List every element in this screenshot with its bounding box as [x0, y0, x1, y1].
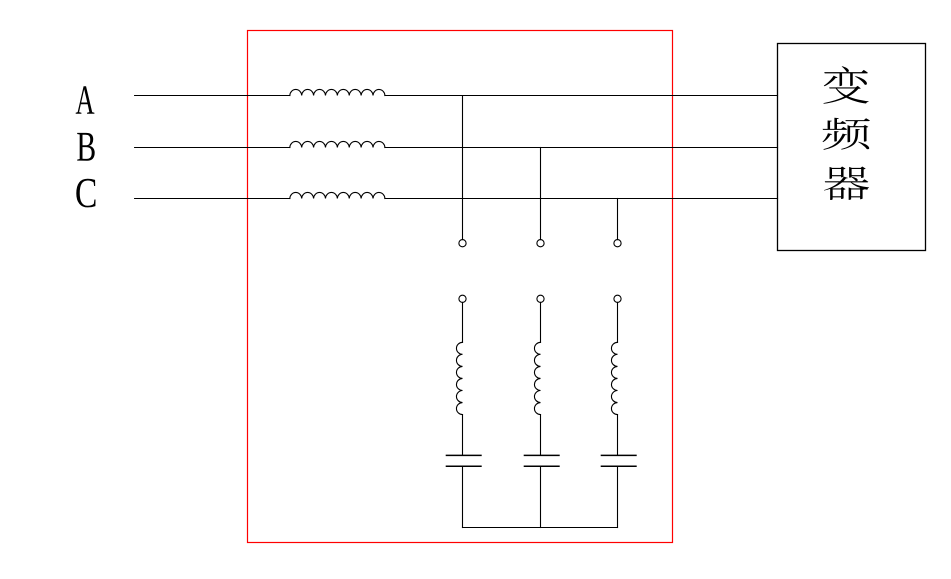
wire from lower terminal to filter inductor (branch B) [540, 302, 542, 342]
phase label B [77, 133, 95, 161]
capacitor CB [524, 455, 560, 466]
wire phase C right segment [385, 198, 778, 200]
wire inductor to capacitor (branch B) [540, 415, 542, 455]
filter inductor LA2 (vertical) [456, 342, 462, 414]
label text 变 (bian) [823, 66, 868, 104]
terminal circle lower (branch A) [459, 295, 466, 302]
wire phase B right segment [385, 147, 778, 149]
series reactor LA (line inductor) [290, 89, 385, 95]
terminal circle upper (branch B) [537, 240, 544, 247]
wire capacitor to bottom bus (branch A) [462, 467, 464, 527]
wire inductor to capacitor (branch A) [462, 415, 464, 455]
capacitor CA [446, 455, 482, 466]
wire phase A left segment [135, 95, 290, 97]
terminal circle upper (branch C) [614, 240, 621, 247]
wire capacitor to bottom bus (branch C) [617, 467, 619, 527]
filter inductor LB2 (vertical) [534, 342, 540, 414]
label text 器 (qi) [824, 167, 869, 200]
wire tap from phase C down to switch terminal [617, 199, 619, 240]
wire inductor to capacitor (branch C) [617, 415, 619, 455]
filter cabinet outline (red box) [248, 31, 673, 543]
capacitor CC [601, 455, 637, 466]
phase label A [76, 86, 95, 113]
terminal circle upper (branch A) [459, 240, 466, 247]
filter inductor LC2 (vertical) [611, 342, 617, 414]
wire tap from phase B down to switch terminal [540, 148, 542, 240]
terminal circle lower (branch C) [614, 295, 621, 302]
series reactor LB (line inductor) [290, 141, 385, 147]
wire phase B left segment [135, 147, 290, 149]
wire phase C left segment [135, 198, 290, 200]
label text 频 (pin) [822, 118, 870, 150]
wire phase A right segment [385, 95, 778, 97]
terminal circle lower (branch B) [537, 295, 544, 302]
wire from lower terminal to filter inductor (branch A) [462, 302, 464, 342]
wire bottom bus joining the three filter branches [463, 527, 618, 529]
series reactor LC (line inductor) [290, 192, 385, 198]
wire from lower terminal to filter inductor (branch C) [617, 302, 619, 342]
phase label C [76, 179, 95, 208]
wire capacitor to bottom bus (branch B) [540, 467, 542, 527]
inverter box U1 [778, 44, 926, 251]
wire tap from phase A down to switch terminal [462, 96, 464, 240]
